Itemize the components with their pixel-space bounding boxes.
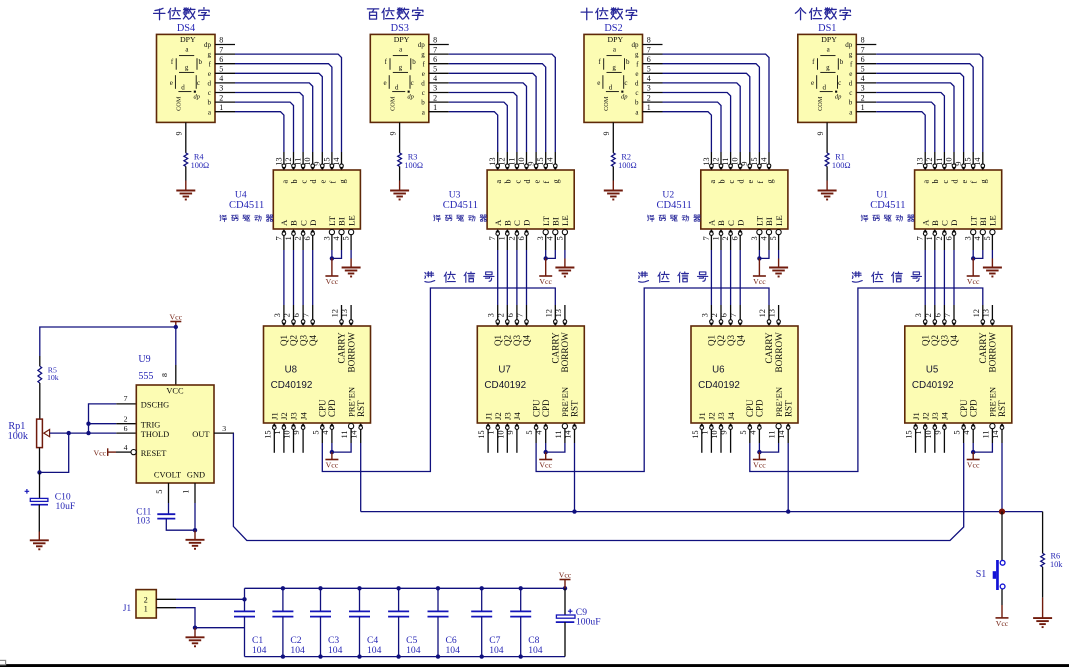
capacitor C8 (104): [520, 588, 522, 611]
svg-text:100uF: 100uF: [576, 617, 601, 628]
capacitor C5 (104): [398, 588, 400, 611]
svg-text:DS4: DS4: [177, 23, 195, 34]
svg-text:4: 4: [124, 443, 128, 452]
svg-text:7: 7: [124, 394, 128, 403]
title label (Chinese digits caption): [154, 8, 165, 19]
svg-text:DSCHG: DSCHG: [141, 401, 169, 410]
svg-text:10k: 10k: [1050, 560, 1063, 569]
svg-text:DS3: DS3: [391, 23, 409, 34]
ground (C10): [30, 532, 49, 550]
potentiometer Rp1: [37, 419, 43, 448]
ground below R6: [1033, 598, 1052, 628]
GND pin 1: [194, 483, 196, 503]
RESET pin with bubble to Vcc tick: [131, 450, 136, 455]
svg-text:Vcc: Vcc: [93, 449, 106, 458]
svg-text:1: 1: [144, 604, 148, 613]
capacitor C6 (104): [437, 588, 439, 611]
svg-text:DS2: DS2: [604, 23, 622, 34]
wire: J1 pin2 to Vcc rail: [156, 598, 176, 600]
title label (Chinese digits caption): [795, 8, 805, 20]
junction at S1 branch (red): [999, 509, 1005, 515]
digit channel 1: display DS1, decoder U1, counter U5: [798, 34, 1012, 511]
svg-text:U7: U7: [498, 364, 510, 375]
svg-text:DS1: DS1: [818, 23, 836, 34]
svg-text:555: 555: [138, 371, 153, 382]
resistor R5: [39, 356, 41, 366]
wire: 555 OUT to ones counter CPU: [233, 433, 963, 540]
svg-text:THOLD: THOLD: [141, 430, 169, 439]
capacitor C1 (104): [244, 588, 246, 611]
svg-text:RESET: RESET: [141, 449, 167, 458]
svg-text:CVOLT: CVOLT: [154, 471, 181, 480]
svg-text:U2: U2: [662, 190, 674, 201]
scrollbar corner box: [0, 660, 6, 664]
svg-text:U4: U4: [235, 190, 247, 201]
svg-text:U8: U8: [285, 364, 297, 375]
svg-text:Vcc: Vcc: [559, 570, 572, 579]
svg-text:1: 1: [181, 490, 190, 494]
svg-text:104: 104: [446, 645, 461, 656]
connector J1: [136, 590, 156, 618]
pushbutton S1: [1000, 560, 1005, 565]
svg-text:U1: U1: [876, 190, 888, 201]
carry signal label (Chinese): [639, 272, 649, 282]
svg-text:104: 104: [328, 645, 343, 656]
svg-text:U5: U5: [926, 364, 938, 375]
svg-text:Vcc: Vcc: [170, 312, 183, 321]
svg-text:J1: J1: [123, 603, 132, 613]
power port Vcc (filter rail): [564, 580, 566, 589]
svg-text:U9: U9: [138, 354, 150, 365]
svg-text:GND: GND: [187, 471, 205, 480]
digit channel 4: display DS4, decoder U4, counter U8: [157, 34, 371, 511]
svg-text:VCC: VCC: [166, 387, 184, 396]
svg-text:2: 2: [124, 414, 128, 423]
svg-text:OUT: OUT: [192, 430, 209, 439]
svg-text:104: 104: [406, 645, 421, 656]
svg-text:6: 6: [124, 424, 128, 433]
svg-text:104: 104: [489, 645, 504, 656]
svg-text:100k: 100k: [8, 431, 29, 442]
title label (Chinese digits caption): [581, 8, 592, 20]
carry signal label (Chinese): [852, 272, 862, 282]
svg-text:2: 2: [144, 595, 148, 604]
CVOLT pin 5 to C11: [168, 483, 170, 503]
power port Vcc (below S1): [1001, 605, 1003, 617]
wire: wiper to THOLD/TRIG: [50, 432, 117, 434]
capacitor C2 (104): [282, 588, 284, 611]
junction: J1 pin 2 at C1: [242, 597, 246, 601]
wire: wiper tied to bottom of Rp1: [40, 433, 69, 472]
svg-text:R1: R1: [835, 153, 845, 162]
svg-text:104: 104: [367, 645, 382, 656]
svg-text:104: 104: [290, 645, 305, 656]
digit channel 2: display DS2, decoder U2, counter U6: [584, 34, 798, 511]
junction on reset bus at U6: [786, 509, 790, 513]
svg-text:3: 3: [222, 424, 226, 433]
capacitor C4 (104): [359, 588, 361, 611]
wire: reset bus (RST of all counters): [361, 511, 1043, 513]
junction on reset bus at U7: [572, 509, 576, 513]
svg-text:R3: R3: [408, 153, 418, 162]
svg-text:U6: U6: [712, 364, 724, 375]
wire: carry signal from counter U7... CARRY to next CPU: [750, 288, 983, 472]
wire: bus to R6: [1042, 512, 1044, 554]
svg-text:104: 104: [252, 645, 267, 656]
svg-text:10k: 10k: [47, 373, 59, 382]
window bottom bar: [0, 664, 1069, 667]
wire: TRIG: [89, 423, 117, 425]
capacitor C11: [157, 513, 175, 515]
svg-text:R4: R4: [194, 153, 205, 162]
svg-text:U3: U3: [449, 190, 461, 201]
svg-text:R2: R2: [621, 153, 631, 162]
title label (Chinese digits caption): [367, 9, 378, 19]
capacitor C9 electrolytic 100uF: [563, 586, 567, 590]
power port Vcc (555 supply): [175, 322, 177, 328]
resistor R6 pulldown: [1041, 553, 1045, 567]
capacitor C7 (104): [481, 588, 483, 611]
wire: J1 pin1 to ground: [156, 607, 176, 609]
wire: Vcc rail to R5: [40, 327, 176, 356]
svg-text:103: 103: [136, 516, 150, 526]
svg-text:S1: S1: [976, 569, 987, 580]
wire: S1 to Vcc: [1001, 589, 1003, 605]
carry signal label (Chinese): [425, 272, 435, 282]
ground rail (bottom): [245, 656, 566, 658]
wire: bus to S1: [1001, 512, 1003, 561]
svg-text:10uF: 10uF: [56, 501, 76, 512]
junction Vcc/R5: [174, 325, 178, 329]
wire: carry signal from counter U5... CARRY to next CPU: [322, 288, 555, 472]
wire: DSCHG to TRIG: [89, 404, 117, 433]
ground (J1): [186, 628, 205, 646]
Vcc filter rail (top): [245, 587, 566, 589]
svg-text:8: 8: [160, 373, 169, 377]
svg-text:TRIG: TRIG: [141, 420, 161, 429]
svg-text:Vcc: Vcc: [996, 619, 1009, 628]
wire: carry signal from counter U6... CARRY to next CPU: [536, 288, 769, 472]
svg-text:5: 5: [155, 490, 164, 494]
capacitor C10 electrolytic: [39, 472, 41, 498]
OUT pin 3: [214, 432, 234, 434]
ground (C11/GND): [186, 531, 205, 549]
555 timer U9 body: [136, 385, 214, 483]
digit channel 3: display DS3, decoder U3, counter U7: [370, 34, 584, 511]
capacitor C3 (104): [320, 588, 322, 611]
svg-text:104: 104: [528, 645, 543, 656]
